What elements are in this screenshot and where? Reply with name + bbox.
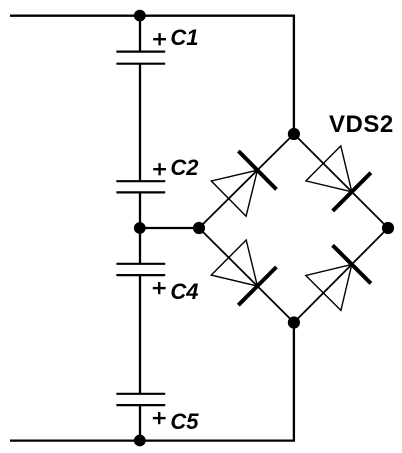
wire bridge arm left to top [199,134,294,228]
wire left rail: top rail to C1 [139,16,141,52]
diode lower-left of bridge VDS2 [211,240,276,305]
wire left rail: C1 to C2 [139,64,141,182]
wire top rail [10,15,295,17]
node bridge bottom corner [288,316,300,328]
diode upper-right of bridge VDS2 [306,146,371,211]
capacitor C2 plates [116,181,165,192]
capacitor C1 plates [116,52,165,64]
svg-text:VDS2: VDS2 [329,111,394,138]
node bridge top corner [288,128,300,140]
wire bridge arm top to right [294,134,388,228]
wire left rail: C4 to C5 [139,275,141,394]
capacitor C4 polarity plus [153,282,166,294]
capacitor C4 plates [116,264,165,275]
svg-text:C4: C4 [170,279,198,304]
wire riser from top rail down to bridge top corner [293,16,295,134]
svg-text:C2: C2 [170,155,199,180]
node junction left rail / bridge feed [134,222,146,234]
capacitor C2 polarity plus [153,163,166,175]
node bridge left corner [193,222,205,234]
wire left rail: C5 to bottom rail [139,405,141,441]
capacitor C5 plates [116,394,165,405]
wire riser from bridge bottom corner down to bottom rail [293,323,295,441]
capacitor C5 polarity plus [153,412,166,424]
svg-text:C5: C5 [170,409,199,434]
node junction top rail / left rail [134,10,146,22]
wire bridge arm bottom to right [294,228,388,323]
node junction bottom rail / left rail [134,435,146,447]
wire bottom rail [10,439,295,441]
diode upper-left of bridge VDS2 [211,151,276,216]
svg-text:C1: C1 [170,25,198,50]
wire left rail: C2 to C4 [139,192,141,263]
node bridge right corner [382,222,394,234]
diode lower-right of bridge VDS2 [306,245,371,310]
wire from left rail to bridge left corner [140,227,199,229]
wire bridge arm left to bottom [199,228,294,323]
capacitor C1 polarity plus [153,33,166,45]
